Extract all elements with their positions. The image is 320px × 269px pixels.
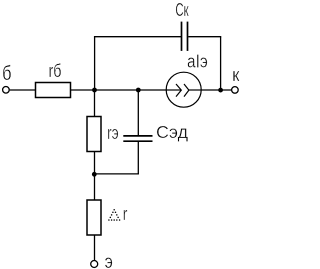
node D emitter junction — [92, 172, 97, 177]
resistor rэ — [87, 117, 101, 152]
node B cap tap junction — [136, 88, 141, 93]
node A base junction — [92, 88, 97, 93]
wire rб to node A — [71, 89, 95, 91]
svg-text:э: э — [105, 251, 113, 269]
wire current source to к — [201, 89, 231, 91]
current source aIэ — [166, 72, 201, 107]
wire cap branch upper — [137, 90, 139, 135]
svg-text:б: б — [2, 63, 11, 85]
svg-text:к: к — [232, 65, 239, 85]
wire cap branch lower — [137, 142, 139, 174]
svg-text:r: r — [123, 204, 128, 224]
node C collector junction — [218, 88, 223, 93]
svg-text:rб: rб — [49, 61, 62, 81]
wire node B to current source — [138, 89, 166, 91]
resistor Δr — [87, 200, 101, 235]
wire Δr to э — [94, 235, 96, 260]
wire node A to node B — [95, 89, 139, 91]
svg-text:aIэ: aIэ — [187, 51, 208, 72]
wire б to rб — [10, 89, 36, 91]
bottom wire — [95, 173, 139, 175]
capacitor Ck — [182, 22, 188, 51]
svg-text:rэ: rэ — [107, 123, 119, 143]
top wire right — [188, 36, 221, 38]
wire rэ to node D — [94, 152, 96, 175]
terminal э — [91, 261, 98, 268]
terminal к — [232, 87, 239, 94]
label Δr triangle — [108, 209, 120, 221]
wire right vertical — [220, 37, 222, 90]
wire node D to Δr — [94, 174, 96, 200]
top wire left — [94, 36, 181, 38]
svg-text:Ск: Ск — [175, 0, 188, 20]
svg-text:Сэд: Сэд — [156, 122, 188, 142]
resistor rб — [36, 83, 71, 98]
wire spine top — [94, 37, 96, 90]
capacitor Сэд — [123, 136, 152, 141]
terminal б — [3, 87, 10, 94]
wire node A to rэ — [94, 90, 96, 117]
